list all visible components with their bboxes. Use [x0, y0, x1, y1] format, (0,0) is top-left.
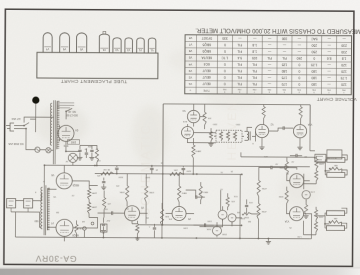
cap C1: [290, 154, 302, 157]
svg-text:330: 330: [222, 36, 228, 40]
svg-text:0: 0: [298, 69, 300, 73]
standby switch S2: [65, 108, 72, 119]
tube V5 label: [140, 206, 144, 209]
power tube V7 label: [50, 221, 78, 236]
svg-text:V5: V5: [188, 56, 192, 60]
junction dots bottom bus: [103, 224, 243, 240]
label sprinkle 2: [42, 154, 307, 236]
svg-text:22K: 22K: [165, 215, 169, 217]
svg-text:240: 240: [296, 56, 302, 60]
pot wires: [199, 190, 258, 227]
plate resistor R1: [279, 158, 290, 181]
ground below filters: [77, 157, 94, 160]
svg-text:FIL: FIL: [252, 76, 257, 80]
output transformer T2 secondary hatching: [47, 188, 49, 230]
rectifier tube V8 5Y3 envelope: [58, 125, 74, 141]
svg-text:0: 0: [224, 75, 226, 79]
svg-text:V8: V8: [188, 36, 192, 40]
choke L1 label box: [67, 140, 79, 145]
svg-text:340V: 340V: [145, 176, 150, 178]
junction dots on bus: [94, 165, 243, 176]
svg-text:125: 125: [282, 63, 288, 67]
svg-text:1.8: 1.8: [252, 43, 257, 47]
wire jack pair 1: [316, 160, 342, 175]
svg-text:V2A: V2A: [307, 123, 312, 126]
svg-text:6EU7: 6EU7: [202, 82, 210, 86]
svg-text:1M: 1M: [237, 211, 240, 213]
svg-text:PIN: PIN: [297, 88, 301, 90]
power transformer T1 label leader lines: [57, 103, 78, 117]
grid resistor R31: [87, 202, 90, 217]
tube V4 label: [182, 109, 187, 122]
svg-text:120: 120: [341, 83, 347, 87]
grid resistor R7: [314, 207, 317, 235]
power tube V7 6BQ5 envelope: [56, 219, 73, 236]
wire rectifier to transformer: [59, 125, 80, 152]
svg-text:FIL: FIL: [237, 69, 242, 73]
label sprinkle mid: [206, 187, 251, 221]
driver tube V4b envelope: [172, 206, 186, 220]
plate resistor R15: [126, 174, 129, 207]
svg-text:PIN: PIN: [237, 88, 241, 90]
reverb transformer T3: [214, 130, 244, 142]
input jack J1: [327, 155, 347, 163]
reverb section boundary wire: [162, 104, 311, 227]
svg-text:180: 180: [281, 69, 287, 73]
filter cap C21: [150, 166, 158, 174]
tube placement chart: preamp tube V1 outline: [137, 38, 145, 53]
grid resistor R5: [315, 156, 318, 184]
svg-text:220K: 220K: [318, 162, 323, 164]
filter capacitor C32: [85, 145, 92, 158]
svg-text:6BQ5: 6BQ5: [202, 43, 211, 47]
svg-text:100K: 100K: [278, 195, 283, 197]
svg-text:PIN: PIN: [327, 88, 331, 90]
svg-text:0: 0: [298, 76, 300, 80]
svg-text:V1: V1: [188, 82, 192, 86]
bass pot P4: [206, 226, 222, 237]
coupling cap C15: [98, 208, 125, 215]
svg-text:1.8: 1.8: [252, 49, 257, 53]
schematic title GA-30RV: [35, 254, 77, 264]
svg-text:FIL: FIL: [252, 63, 257, 67]
svg-text:1.75: 1.75: [341, 76, 348, 80]
tube placement chart: power tube V7 outline: [43, 33, 52, 53]
tube placement chart: preamp tube V1 outline: [148, 38, 156, 53]
voltage chart measurement note: [195, 27, 360, 34]
svg-text:0: 0: [224, 43, 226, 47]
svg-text:-2A: -2A: [75, 129, 79, 132]
svg-text:3000: 3000: [70, 140, 76, 142]
svg-text:FIL: FIL: [237, 82, 242, 86]
plate resistor R2: [278, 187, 290, 214]
driver plate resistor R19: [178, 174, 187, 202]
resistor values: [91, 192, 97, 208]
cathode pot P5: [302, 181, 311, 205]
wire center vertical: [239, 174, 241, 239]
ground cap C18: [101, 218, 111, 234]
svg-text:180: 180: [311, 69, 317, 73]
svg-text:TUBE PLACEMENT CHART: TUBE PLACEMENT CHART: [61, 79, 128, 84]
label sprinkle reverb: [212, 122, 254, 143]
pilot lamp assembly: [68, 153, 77, 165]
svg-text:130: 130: [79, 227, 82, 229]
preamp tube V1B envelope: [290, 207, 304, 221]
svg-text:470K: 470K: [261, 210, 266, 212]
tube V2b label: [307, 123, 312, 126]
wire left vertical: [14, 212, 16, 237]
wire jack pair 2: [316, 213, 342, 228]
power transformer T1 core: [53, 100, 55, 164]
reverb mix resistor R44: [297, 105, 302, 150]
svg-text:320V: 320V: [186, 169, 191, 171]
resistor labels PI: [119, 191, 154, 193]
svg-text:330: 330: [282, 36, 288, 40]
tube placement chart caption: [61, 79, 128, 84]
filter cap C22: [181, 166, 185, 175]
wire mid bottom bus: [139, 225, 309, 239]
svg-text:PIN: PIN: [282, 88, 286, 90]
wire B+ feed: [80, 145, 99, 166]
svg-text:TYPE: TYPE: [203, 89, 210, 92]
svg-text:230: 230: [341, 43, 347, 47]
phase inverter tube V5 envelope: [125, 206, 140, 221]
tube V4b label: [187, 217, 191, 220]
svg-text:FIL: FIL: [252, 69, 257, 73]
wire V4B plate to transformer: [194, 132, 217, 134]
svg-text:1M: 1M: [146, 216, 149, 218]
cathode resistor R32: [75, 220, 83, 237]
svg-text:FIL: FIL: [237, 62, 242, 66]
svg-text:FIL: FIL: [267, 56, 272, 60]
hum balance control: [100, 224, 107, 237]
reverb return tube V3b envelope: [255, 124, 268, 137]
labels divider: [261, 187, 267, 212]
power tube V6 label: [51, 173, 79, 186]
svg-text:0: 0: [224, 69, 226, 73]
svg-text:V6: V6: [62, 47, 66, 51]
treble cap C25: [245, 199, 253, 213]
svg-text:2K 1W: 2K 1W: [103, 168, 111, 170]
pilot lamp I1: [46, 148, 51, 153]
svg-text:0: 0: [298, 63, 300, 67]
svg-text:117 VAC: 117 VAC: [11, 117, 21, 120]
divider resistor R22: [257, 174, 260, 203]
svg-text:MEG: MEG: [181, 191, 186, 193]
svg-text:MEASURED TO CHASSIS WITH 20,00: MEASURED TO CHASSIS WITH 20,000 OHM/VOLT…: [195, 27, 360, 34]
svg-text:PIN: PIN: [312, 88, 316, 90]
divider resistor R23: [257, 203, 260, 239]
filter capacitor C31: [90, 145, 98, 157]
svg-text:PIN: PIN: [267, 88, 271, 90]
svg-text:170: 170: [281, 82, 287, 86]
tone stack resistor R26: [242, 213, 252, 218]
wire AC to transformer: [24, 117, 54, 150]
reverb driver tube V4B envelope: [181, 127, 193, 139]
svg-text:1.8: 1.8: [342, 56, 347, 60]
output transformer label: [34, 219, 39, 221]
voltage chart caption: [317, 97, 357, 102]
PI output wires: [132, 213, 148, 224]
wire preamp outputs: [303, 181, 311, 239]
svg-text:V5: V5: [79, 47, 83, 51]
wire preamp bottom: [266, 238, 312, 245]
svg-text:500-CT-50: 500-CT-50: [66, 114, 78, 117]
power tube V6 6BQ5 envelope: [56, 173, 72, 189]
cap C40 near V6: [101, 178, 106, 190]
svg-text:500K: 500K: [240, 217, 245, 219]
tube placement chart: power tube V6 outline: [60, 33, 70, 53]
svg-text:10K: 10K: [173, 169, 177, 171]
wire reverb to footswitch: [310, 126, 315, 151]
svg-text:6EU7A: 6EU7A: [201, 56, 212, 60]
svg-text:120: 120: [341, 63, 347, 67]
svg-text:220K: 220K: [91, 206, 97, 208]
dropping resistor R21: [170, 169, 183, 176]
svg-text:220K: 220K: [279, 166, 284, 168]
bleed-through watermark: [138, 100, 240, 218]
svg-text:250: 250: [311, 50, 317, 54]
dropping resistor R20: [101, 168, 114, 175]
tail resistor R18: [160, 203, 169, 238]
label sprinkle right: [290, 160, 315, 237]
svg-text:V3: V3: [188, 69, 192, 73]
svg-text:5.4: 5.4: [237, 56, 242, 60]
wire reverb chain: [252, 126, 293, 141]
power transformer T1 primary winding: [50, 103, 52, 145]
svg-text:1.25: 1.25: [311, 63, 318, 67]
volume pot P2: [218, 210, 227, 221]
svg-text:VOLTAGE CHART: VOLTAGE CHART: [317, 97, 357, 102]
svg-text:NO 4843 LNS: NO 4843 LNS: [8, 142, 23, 145]
svg-text:FIL: FIL: [282, 56, 287, 60]
tube placement chart: preamp tube V2 outline: [125, 38, 133, 53]
cap across divider C23: [259, 162, 285, 174]
output transformer T2 core: [44, 185, 46, 235]
svg-text:V1A: V1A: [284, 220, 289, 223]
svg-text:10K: 10K: [207, 116, 211, 118]
reverb footswitch jack J7: [315, 154, 337, 162]
reverb mix tube V2b envelope: [293, 125, 306, 138]
svg-text:GA-30RV: GA-30RV: [35, 254, 77, 264]
svg-text:5AC: 5AC: [311, 37, 318, 41]
wire jacks to grids: [303, 162, 323, 235]
svg-text:250K: 250K: [206, 227, 211, 229]
cap C24: [285, 166, 297, 170]
output transformer T2 primary winding: [41, 187, 43, 229]
wire OT center tap to B+: [43, 164, 45, 185]
svg-text:250K: 250K: [221, 233, 226, 235]
tube placement chart: power tube V5 outline: [76, 33, 86, 53]
screen dropping resistor R33: [102, 191, 110, 218]
wire speaker jacks to OT: [11, 192, 42, 227]
input jack J2: [327, 170, 347, 178]
voltage chart cell text: [188, 36, 347, 93]
coupling cap C17: [193, 223, 213, 227]
svg-text:470K: 470K: [261, 187, 266, 189]
svg-text:1M: 1M: [304, 155, 307, 157]
svg-text:0: 0: [224, 62, 226, 66]
input jack J3: [327, 208, 347, 216]
tube V1A label: [285, 172, 289, 175]
tube V3b label: [270, 123, 274, 126]
rectifier label: [63, 128, 79, 148]
tube V1B label: [284, 220, 289, 223]
fuse F1: [35, 147, 40, 152]
svg-text:V2: V2: [188, 75, 192, 79]
bottom bus wire: [15, 236, 159, 239]
filter cap C20: [115, 166, 119, 175]
reverb tank coil L2: [244, 127, 252, 140]
mixer resistor R19b: [199, 182, 208, 204]
svg-text:1MEG: 1MEG: [195, 149, 201, 151]
speaker jack J5: [7, 199, 16, 212]
AC plug P1: [6, 117, 24, 145]
reverb driver tube V4A envelope: [187, 110, 199, 122]
screen resistor R30: [88, 185, 91, 202]
coupling cap C16: [186, 190, 205, 199]
wire driver: [166, 202, 195, 214]
svg-text:V7: V7: [45, 47, 49, 51]
svg-text:250: 250: [311, 43, 317, 47]
input resistor R9: [330, 217, 342, 223]
wire reverb V4 plumbing: [187, 104, 216, 143]
svg-text:V6: V6: [188, 49, 192, 53]
wire power tube grids: [72, 181, 98, 228]
misc small caps on ground bus: [148, 224, 157, 238]
svg-text:6EU7: 6EU7: [202, 69, 210, 73]
svg-text:FIL: FIL: [252, 82, 257, 86]
pilot lamp dark knob: [32, 97, 39, 104]
svg-text:230: 230: [341, 50, 347, 54]
svg-text:0: 0: [224, 49, 226, 53]
preamp tube V1A envelope: [290, 174, 304, 188]
svg-text:6BQ5: 6BQ5: [72, 233, 79, 236]
svg-text:105: 105: [252, 56, 258, 60]
tone stack resistor R25: [226, 193, 235, 210]
reverb return components: [259, 104, 265, 149]
svg-text:220K: 220K: [91, 192, 97, 194]
input jack J4: [326, 223, 346, 231]
svg-text:MEG: MEG: [203, 190, 208, 192]
B+ bus wire: [44, 165, 309, 167]
reverb plate resistor R40: [203, 104, 212, 129]
svg-text:0: 0: [313, 56, 315, 60]
svg-text:175: 175: [281, 76, 287, 80]
power transformer T1 secondary winding: [57, 101, 60, 149]
svg-text:180: 180: [311, 76, 317, 80]
svg-text:PIN: PIN: [252, 88, 256, 90]
svg-text:5Y3GT: 5Y3GT: [202, 36, 212, 40]
svg-text:V7: V7: [188, 43, 192, 47]
wire pilot stem: [30, 104, 36, 132]
svg-text:100K: 100K: [149, 191, 155, 193]
svg-text:120: 120: [341, 70, 347, 74]
svg-text:1W: 1W: [82, 220, 85, 222]
svg-text:2.7K: 2.7K: [310, 190, 315, 192]
tone pot P3: [228, 211, 240, 224]
speaker jack J6: [24, 199, 33, 212]
svg-text:PIN: PIN: [342, 88, 346, 90]
svg-text:220K: 220K: [318, 215, 323, 217]
B+ bus lower wire: [95, 173, 242, 176]
tube placement chart: preamp tube V4 outline: [99, 31, 109, 52]
input resistor R8: [330, 164, 342, 170]
svg-text:100K: 100K: [119, 191, 125, 193]
svg-text:0: 0: [224, 82, 226, 86]
tube placement chart: preamp tube V3 outline: [113, 38, 121, 53]
reverb cathode resistor R42: [208, 128, 213, 146]
label cluster near power tubes: [71, 174, 101, 222]
node circle near V7: [83, 227, 86, 238]
svg-text:1.5K: 1.5K: [297, 235, 302, 237]
svg-text:0: 0: [298, 82, 300, 86]
cathode resistor R17: [135, 221, 140, 241]
grid resistor R4: [315, 159, 318, 169]
svg-text:8.6: 8.6: [327, 56, 332, 60]
wire reverb tank return: [241, 152, 316, 158]
svg-text:1.7C: 1.7C: [221, 56, 229, 60]
cathode resistor R3: [303, 205, 308, 219]
svg-text:6BQ5: 6BQ5: [72, 183, 79, 186]
reverb tank box: [327, 150, 342, 159]
grid resistor R6: [314, 210, 317, 220]
svg-text:350V: 350V: [118, 175, 123, 177]
svg-text:6EU7: 6EU7: [202, 75, 210, 79]
node circle 2: [91, 222, 94, 225]
filter capacitor C30: [78, 145, 87, 157]
svg-text:180: 180: [311, 82, 317, 86]
power switch S1: [14, 123, 29, 130]
svg-text:PIN: PIN: [223, 88, 227, 90]
label near OT: [34, 190, 56, 197]
svg-text:V4: V4: [188, 62, 192, 66]
svg-text:NO. 40: NO. 40: [68, 110, 76, 113]
reverb grid resistor R41: [192, 138, 202, 175]
voltage chart table grid: [185, 35, 352, 95]
svg-text:6C4: 6C4: [204, 62, 210, 66]
bus labels: [118, 161, 233, 178]
svg-text:470: 470: [108, 202, 111, 204]
svg-text:FIL: FIL: [237, 76, 242, 80]
plate resistor R16: [144, 174, 147, 224]
svg-text:6BQ5: 6BQ5: [202, 49, 211, 53]
tube placement chart chassis outline: [37, 52, 158, 78]
wire OT to power tubes: [47, 165, 64, 241]
svg-text:FIL: FIL: [237, 43, 242, 47]
svg-text:FIL: FIL: [237, 49, 242, 53]
